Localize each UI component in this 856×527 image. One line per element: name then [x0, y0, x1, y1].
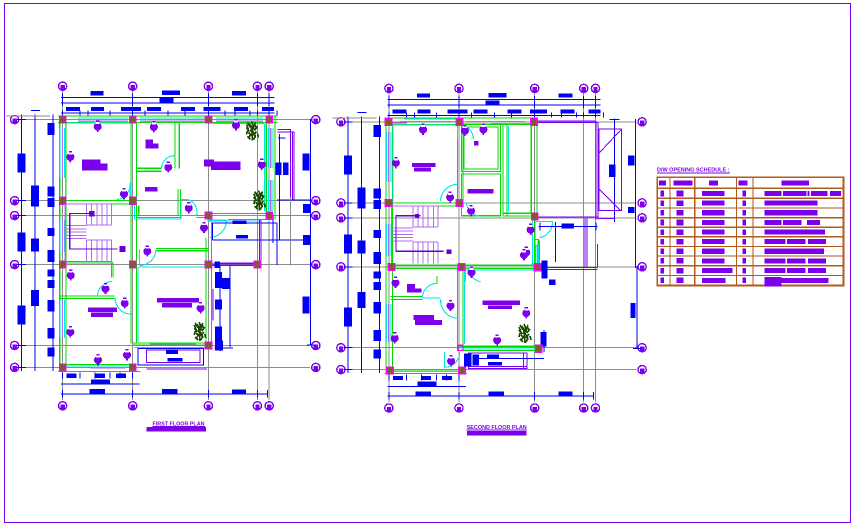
plan2 window on wall C2 lower	[535, 240, 539, 266]
plant top right	[247, 122, 259, 141]
door leaf line plan2 top	[457, 124, 459, 140]
column plan2 B2	[456, 199, 463, 206]
title SECOND FLOOR PLAN	[466, 425, 527, 436]
grid bubble plan1 col C top	[204, 82, 212, 90]
left dimension lines plan1	[6, 111, 53, 372]
plan1 room label TOILET	[88, 308, 117, 317]
grid bubble plan1 col C bottom	[204, 402, 212, 410]
column plan1 C1	[205, 116, 212, 123]
column plan1 C4	[205, 342, 212, 349]
column plan2 C1	[531, 118, 538, 125]
grid bubble plan2 col E top	[591, 84, 599, 92]
grid lines plan2	[346, 93, 636, 402]
plan2 side porch dim line	[539, 222, 598, 285]
grid bubble plan2 row 4 right	[638, 263, 646, 271]
column plan2 B5	[459, 367, 466, 374]
ceiling fan	[197, 302, 205, 313]
grid bubble plan2 col B top	[455, 84, 463, 92]
ceiling fan	[447, 355, 455, 366]
plan2 front steps	[464, 353, 544, 369]
schedule row 5 text	[661, 229, 825, 235]
grid bubble plan2 col D bottom	[580, 404, 588, 412]
grid bubble plan2 row 2 right	[638, 199, 646, 207]
door leaf line lobby	[181, 198, 187, 200]
plan2 bedroom3 inner cyan trace	[464, 270, 536, 344]
plan2 right dimension text	[541, 156, 636, 347]
plan1 window dim text right of C3	[214, 261, 220, 268]
door arc bottom2	[445, 352, 460, 367]
grid bubble plan1 col A bottom	[59, 402, 67, 410]
ceiling fan	[200, 222, 208, 233]
plant right middle	[254, 191, 265, 211]
plan2 room label BED ROOM upper	[412, 163, 435, 172]
column plan1 A3	[59, 261, 66, 268]
plan1 window band on wall C	[212, 289, 213, 321]
grid bubble plan1 row 5 right	[312, 341, 320, 349]
ceiling fan	[258, 159, 266, 170]
ceiling fan	[447, 300, 455, 311]
ceiling fan	[479, 124, 487, 135]
plan1 room label LOBBY	[145, 187, 158, 192]
grid bubble plan1 row 4 right	[312, 261, 320, 269]
grid bubble plan2 row 3 right	[638, 214, 646, 222]
bottom dimension text plan1	[67, 374, 247, 394]
grid bubble plan2 row 5 left	[337, 344, 345, 352]
grid bubble plan2 row 2 left	[337, 199, 345, 207]
grid bubble plan2 row 1 right	[638, 118, 646, 126]
title FIRST FLOOR PLAN	[146, 422, 206, 432]
grid bubble plan2 row 6 left	[337, 366, 345, 374]
grid bubble plan1 row 6 left	[11, 363, 19, 371]
door leaf line plan2 bottom	[444, 352, 446, 367]
column plan2 B1	[456, 118, 463, 125]
ceiling fan	[522, 247, 530, 258]
plan2 column marker B2 row4	[458, 345, 463, 350]
grid bubble plan1 row 5 left	[11, 341, 19, 349]
ceiling fan	[467, 205, 475, 216]
grid lines plan1	[20, 91, 310, 400]
plan1 right dimension line	[277, 119, 316, 345]
schedule row 7 text	[661, 248, 825, 254]
ceiling fan	[392, 277, 400, 288]
door arc hall2	[466, 202, 481, 216]
plan2 open-well with cross	[599, 129, 621, 211]
plan1 small marker	[121, 247, 123, 249]
plan2 room label small upper	[407, 284, 421, 293]
grid bubble plan1 col B bottom	[129, 402, 137, 410]
plan2 staircase	[392, 206, 438, 264]
column plan2 A5	[387, 367, 394, 374]
plan1 balcony right	[278, 129, 295, 199]
ceiling fan	[121, 297, 129, 308]
column plan1 D3	[254, 261, 261, 268]
ceiling fan	[67, 269, 75, 280]
plan1 exterior walls	[58, 116, 277, 371]
plan1 rear porch outline	[209, 215, 304, 266]
plan2 terrace outline	[535, 121, 598, 219]
schedule row 2 text	[661, 200, 818, 206]
left dimension text plan2	[344, 125, 381, 359]
door arc porch2	[540, 222, 553, 238]
plan2 corridor cyan trace	[508, 126, 510, 211]
bottom dimension lines plan2	[388, 375, 594, 400]
column plan1 A2	[59, 197, 66, 204]
plan2 right dimension line	[544, 119, 641, 352]
door arc bedroom1	[117, 184, 130, 200]
door leaf line porch	[209, 219, 227, 221]
schedule table title	[657, 167, 730, 173]
second floor plan group	[332, 84, 646, 412]
ceiling fan	[102, 283, 110, 294]
grid bubble plan1 col E bottom	[265, 402, 273, 410]
plan2 room label lower	[413, 315, 442, 325]
plan2 bedroom inner cyan trace	[393, 125, 457, 202]
schedule row 4 text	[661, 220, 821, 226]
column plan1 A1	[59, 116, 66, 123]
plan2 exterior walls	[384, 117, 539, 374]
grid bubble plan1 col B top	[129, 82, 137, 90]
plan2 small marker square	[474, 141, 479, 146]
ceiling fan	[94, 121, 102, 132]
door arc bedroom2 entry	[458, 124, 474, 140]
grid bubble plan1 row 2 left	[11, 197, 19, 205]
grid bubble plan2 col A bottom	[385, 404, 393, 412]
grid bubble plan1 col D bottom	[253, 402, 261, 410]
ceiling fan	[123, 349, 131, 360]
schedule row 8 text	[661, 258, 826, 264]
schedule row 9 text	[661, 268, 826, 274]
grid bubble plan2 col C bottom	[531, 404, 539, 412]
ceiling fan	[150, 121, 158, 132]
door arc toilet2 upper	[423, 283, 437, 297]
bottom dimension text plan2	[393, 376, 573, 396]
column plan2 C2b	[532, 213, 539, 220]
ceiling fan	[493, 334, 501, 345]
grid bubble plan1 row 1 left	[11, 116, 19, 124]
schedule row 1 text	[661, 191, 841, 197]
column plan2 C4	[535, 345, 542, 352]
plant master bedroom	[194, 322, 205, 341]
column plan1 C2	[205, 212, 212, 219]
door arc bedroom2 lower	[441, 184, 458, 201]
grid bubble plan2 row 6 right	[638, 366, 646, 374]
grid bubble plan2 row 4 left	[337, 263, 345, 271]
plan1 dim text right of bedroom wall C	[215, 272, 230, 350]
grid bubble plan1 col E top	[265, 82, 273, 90]
column plan1 C3	[205, 261, 212, 268]
ceiling fan	[419, 124, 427, 135]
door leaf line dining	[138, 250, 140, 266]
grid bubble plan2 row 3 left	[337, 214, 345, 222]
grid bubble plan1 row 2 right	[312, 197, 320, 205]
ceiling fan	[120, 188, 128, 199]
column plan1 E2	[266, 212, 273, 219]
plan1 room label MASTER BED ROOM	[157, 298, 199, 307]
grid bubble plan2 col D top	[580, 84, 588, 92]
grid bubble plan1 col D top	[253, 82, 261, 90]
ceiling fan	[185, 202, 193, 213]
grid bubble plan1 row 4 left	[11, 261, 19, 269]
column plan1 B5	[129, 364, 136, 371]
schedule row 10 text	[661, 277, 829, 286]
ceiling fan	[66, 151, 74, 162]
top dimension lines plan2	[388, 96, 604, 118]
grid bubble plan2 col E bottom	[591, 404, 599, 412]
door leaf line plan2 porch	[536, 221, 553, 223]
plan1 right dimension text	[275, 154, 310, 314]
schedule table grid	[657, 177, 843, 285]
top dimension text plan2	[392, 93, 600, 114]
top dimension text plan1	[66, 91, 274, 112]
column plan2 C3	[534, 264, 541, 271]
door arc toilet lower	[115, 298, 132, 315]
column plan1 B3	[129, 261, 136, 268]
column plan2 A1	[385, 118, 392, 125]
plan1 room label BED ROOM	[82, 159, 108, 170]
plan1 row3 purple wall C to D	[215, 263, 259, 266]
column plan1 B2	[129, 197, 136, 204]
column plan2 A3	[388, 264, 395, 271]
door arc porch	[210, 220, 227, 237]
door arc dining	[139, 250, 156, 265]
column plan2 B3	[458, 264, 465, 271]
top dimension lines plan1	[61, 94, 277, 116]
column plan1 E1	[266, 116, 273, 123]
column plan1 A5	[59, 364, 66, 371]
ceiling fan	[527, 224, 535, 235]
ceiling fan	[468, 267, 476, 278]
grid bubble plan1 col A top	[59, 82, 67, 90]
grid bubble plan2 col A top	[385, 84, 393, 92]
plan2 side porch outline	[538, 218, 615, 269]
ceiling fan	[66, 326, 74, 337]
first floor plan group	[6, 82, 320, 410]
schedule table header text	[659, 181, 809, 186]
schedule row 6 text	[661, 239, 826, 245]
plan1 stair walk line	[70, 211, 126, 252]
ceiling fan	[392, 157, 400, 168]
column plan2 A2	[385, 199, 392, 206]
plan1 dim lines right of bedroom wall C	[215, 266, 234, 351]
door leaf line bedroom1	[129, 182, 131, 200]
plan2 stair walk line	[396, 214, 451, 254]
left dimension lines plan2	[332, 113, 379, 374]
door arc kitchen	[162, 156, 175, 169]
plan1 minor grid line right	[290, 197, 292, 266]
ceiling fan	[94, 354, 102, 365]
ceiling fan	[520, 249, 528, 260]
plan1 room label KITCHEN	[146, 139, 159, 148]
plan1 bedroom1 inner cyan trace	[65, 123, 136, 199]
door arc toilet2 lower	[441, 300, 458, 319]
plan2 room label TOILET	[467, 189, 493, 194]
plan1 master bedroom inner cyan trace	[138, 267, 204, 341]
plan1 living room inner cyan trace	[213, 123, 264, 211]
grid bubble plan2 row 1 left	[337, 118, 345, 126]
schedule row 3 text	[661, 210, 818, 216]
grid bubble plan1 row 1 right	[312, 116, 320, 124]
column plan1 B1	[129, 116, 136, 123]
bottom dimension lines plan1	[61, 373, 267, 398]
ceiling fan	[461, 125, 469, 136]
left dimension text plan1	[18, 123, 55, 357]
door leaf line bedroom3	[465, 268, 467, 282]
plan1 room label LIVING ROOM	[204, 159, 241, 170]
door arc bedroom3	[468, 265, 480, 281]
plan1 porch dim text	[232, 221, 248, 239]
ceiling fan	[232, 119, 240, 130]
ceiling fan	[446, 191, 454, 202]
plan2 room label BED ROOM right	[483, 301, 521, 309]
grid bubble plan2 row 5 right	[638, 344, 646, 352]
ceiling fan	[522, 307, 530, 318]
ceiling fan	[164, 161, 172, 172]
grid bubble plan1 row 3 right	[312, 212, 320, 220]
door arc lobby	[187, 199, 197, 215]
grid bubble plan1 row 6 right	[312, 363, 320, 371]
ceiling fan	[143, 245, 151, 256]
grid bubble plan2 col C top	[531, 84, 539, 92]
plant bedroom3	[519, 324, 531, 343]
door arc toilet upper	[97, 281, 112, 296]
plan1 staircase	[65, 204, 111, 262]
grid bubble plan1 row 3 left	[11, 212, 19, 220]
ceiling fan	[391, 332, 399, 343]
grid bubble plan2 col B bottom	[455, 404, 463, 412]
plan1 front steps	[138, 348, 207, 368]
